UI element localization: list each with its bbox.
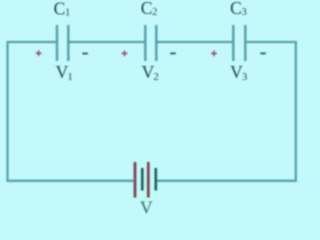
wire: top segment C2 to C3 (156, 41, 233, 43)
wire: right vertical (295, 41, 297, 182)
battery V: positive plate 1 (tall maroon) (134, 162, 137, 198)
plus sign at C2 left plate (122, 51, 128, 57)
wire: top segment left of C1 (8, 41, 57, 43)
wire: bottom segment right of battery (156, 180, 297, 182)
wire: top segment C1 to C2 (69, 41, 146, 43)
minus sign at C2 right plate (170, 52, 175, 54)
wire: bottom segment left of battery (7, 180, 136, 182)
battery V: negative plate 2 (short teal) (155, 168, 158, 191)
capacitor C3 plates (233, 25, 245, 61)
plus sign at C3 left plate (211, 51, 217, 57)
capacitor C2 plates (145, 25, 156, 61)
svg-text:V: V (140, 197, 153, 215)
battery V: negative plate 1 (short teal) (141, 168, 144, 191)
minus sign at C3 right plate (260, 52, 265, 54)
wire: top segment right of C3 (245, 41, 295, 43)
capacitor C1 plates (57, 25, 68, 61)
wire: left vertical (6, 41, 8, 182)
battery V: positive plate 2 (tall maroon) (147, 162, 150, 198)
plus sign at C1 left plate (36, 50, 42, 56)
minus sign at C1 right plate (82, 53, 87, 55)
